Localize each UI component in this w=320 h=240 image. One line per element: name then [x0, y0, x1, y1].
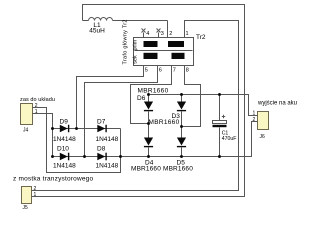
wire Tr2 pin1 to inner right loop down to J5 pin 2 [32, 21, 239, 191]
diode D4 MBR1660 [131, 124, 161, 173]
svg-text:5: 5 [145, 67, 148, 73]
svg-text:zas do układu: zas do układu [20, 97, 55, 103]
node dot C1 top [218, 93, 221, 96]
connector J5 [13, 176, 93, 212]
svg-text:2: 2 [35, 103, 38, 109]
Tr2 pin 4 stub with X (unconnected) [142, 29, 150, 38]
svg-text:4: 4 [146, 31, 149, 37]
Tr2 pin 3 stub with X (unconnected) [157, 29, 164, 38]
svg-text:z mostka tranzystorowego: z mostka tranzystorowego [13, 176, 93, 183]
svg-text:Trafo główny Tr2: Trafo główny Tr2 [123, 19, 129, 64]
diode D5 MBR1660 [163, 127, 193, 173]
svg-text:D9: D9 [60, 119, 69, 126]
svg-text:D7: D7 [97, 119, 106, 126]
svg-text:J6: J6 [260, 134, 266, 140]
svg-text:J4: J4 [23, 128, 29, 134]
node dot bridge top at D3 [180, 93, 183, 96]
svg-text:D8: D8 [97, 146, 106, 153]
diode D6 MBR1660 [137, 88, 169, 124]
capacitor C1 470uF [213, 95, 237, 157]
wire J4 pin 2 to right node of 1N4148 rows [33, 108, 121, 173]
svg-text:2: 2 [169, 31, 172, 37]
node dot rows left bottom [51, 155, 54, 158]
wire outer loop: top line, right side down, bottom to J5 pin 1 [32, 5, 245, 197]
node dot C1 bottom [218, 155, 221, 158]
wire Tr2 pin 7 jog to D6/D4 node [131, 66, 172, 124]
node dot bridge top at D6 [147, 93, 150, 96]
node dot bottom rail at D5 [180, 155, 183, 158]
svg-text:J5: J5 [23, 205, 29, 211]
svg-text:prim: prim [132, 39, 138, 50]
diode D3 MBR1660 [149, 95, 187, 127]
wire bridge top rail to J6 pin 1 [149, 95, 258, 116]
transformer Tr2 body [134, 38, 194, 66]
svg-text:1: 1 [34, 192, 37, 198]
svg-text:1N4148: 1N4148 [53, 162, 76, 169]
wire Tr2 pin 5 jog to D9/D7 node [77, 66, 144, 129]
wire Tr2 pin 8 jog to D3/D5 node [182, 66, 201, 127]
diode D10 1N4148 [53, 146, 76, 170]
Tr2 primary winding bars [144, 41, 158, 47]
svg-text:470uF: 470uF [222, 136, 237, 142]
node dot D3/D5 midpoint [180, 125, 183, 128]
wire Tr2 pin 6 jog to bottom rail [85, 66, 158, 157]
svg-text:D6: D6 [137, 95, 146, 102]
svg-text:MBR1660: MBR1660 [138, 88, 169, 95]
node dot rows left top [51, 127, 54, 130]
svg-text:3: 3 [161, 31, 164, 37]
svg-text:Tr2: Tr2 [196, 34, 206, 41]
svg-text:1N4148: 1N4148 [96, 136, 119, 143]
svg-text:MBR1660: MBR1660 [163, 165, 193, 172]
svg-text:1: 1 [35, 109, 38, 115]
diode D7 1N4148 [96, 119, 119, 144]
wire bridge bottom rail long (1N4148 rows to J6 pin 2) [53, 122, 258, 157]
svg-text:7: 7 [173, 67, 176, 73]
diode D8 1N4148 [96, 146, 119, 170]
node dot rows right on bottom rail [119, 155, 122, 158]
node dot D6/D4 midpoint [147, 122, 150, 125]
svg-text:wyjście na aku: wyjście na aku [257, 100, 297, 106]
svg-text:sek: sek [132, 55, 138, 64]
svg-text:6: 6 [159, 67, 162, 73]
svg-text:1N4148: 1N4148 [96, 162, 119, 169]
svg-text:MBR1660: MBR1660 [149, 119, 180, 126]
svg-text:8: 8 [186, 67, 189, 73]
svg-text:2: 2 [253, 117, 256, 123]
connector J4 [20, 97, 55, 134]
Tr2 secondary winding bars [144, 53, 158, 59]
svg-text:1: 1 [253, 111, 256, 117]
node dot pin6 tap on bottom rail [83, 155, 86, 158]
svg-text:MBR1660: MBR1660 [131, 165, 161, 172]
svg-text:1N4148: 1N4148 [53, 136, 76, 143]
wire Tr2 pin2 riser [167, 21, 169, 38]
wire 1N4148 top row [53, 128, 121, 130]
inductor L1 [83, 18, 168, 35]
svg-text:D10: D10 [57, 146, 69, 153]
svg-text:45uH: 45uH [89, 27, 105, 34]
node dot pin5 tap on top row [75, 127, 78, 130]
wire J4 pin 1 to left node of 1N4148 rows [33, 114, 53, 157]
node dot bottom rail at D4 [147, 155, 150, 158]
connector J6 [253, 100, 298, 140]
diode D9 1N4148 [53, 119, 76, 144]
svg-text:1: 1 [186, 31, 189, 37]
